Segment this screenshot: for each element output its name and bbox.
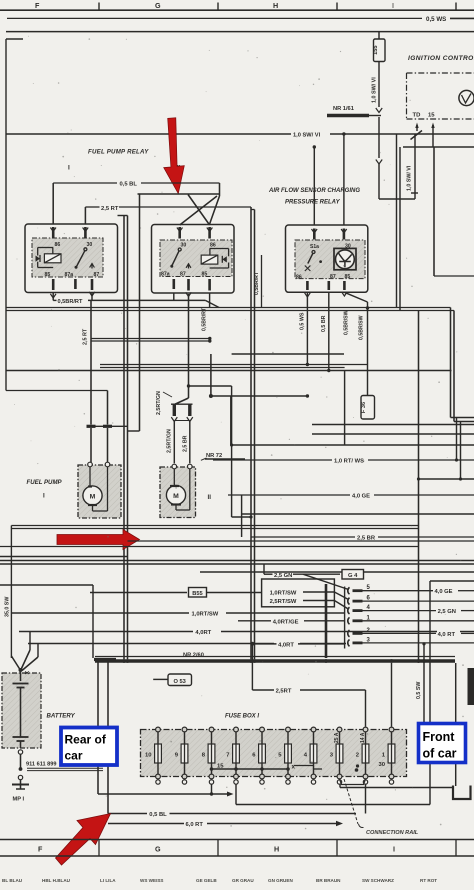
fuses 10..1 [145, 727, 395, 784]
wire 1,0SW/VI from 155 [372, 62, 383, 113]
svg-text:LI LILA: LI LILA [100, 878, 116, 883]
ground MP I [12, 785, 29, 803]
svg-text:IGNITION CONTROL: IGNITION CONTROL [408, 55, 474, 62]
svg-text:6,0 RT: 6,0 RT [186, 822, 204, 828]
legend color codes [2, 878, 437, 883]
annotation rear of car [61, 728, 117, 766]
wire bus y572 [200, 571, 474, 573]
svg-text:85: 85 [45, 272, 51, 278]
svg-text:BR BRAUN: BR BRAUN [316, 878, 341, 883]
wire B55 row [90, 592, 262, 594]
label box 1,0RT/SW 2,5RT/SW [262, 579, 348, 609]
annotation red arrow pointing right at bus [57, 530, 140, 550]
svg-text:2,5RT/GN: 2,5RT/GN [156, 391, 162, 415]
svg-text:1,0 RT/ WS: 1,0 RT/ WS [334, 459, 364, 465]
svg-text:4,0 GE: 4,0 GE [435, 589, 453, 595]
terminal TD [413, 113, 421, 132]
fuse labels 15 X 25A 30 [217, 732, 386, 770]
wire 4,0 GE row [228, 494, 474, 500]
wire 2,5RT fuse feed [252, 644, 365, 727]
svg-text:NR 72: NR 72 [206, 453, 222, 459]
svg-text:x: x [292, 764, 296, 771]
wire vertical pair x251 [251, 207, 255, 659]
wire bus pair right corner [451, 308, 474, 481]
wire 1,0RT/SW row y613 [11, 612, 345, 618]
wire bus pair y364 [100, 306, 369, 367]
svg-text:2,5RT/SW: 2,5RT/SW [270, 599, 297, 605]
wire 35,0 SW battery feed [5, 526, 12, 659]
wire y354 [232, 353, 344, 355]
wire y514 [242, 513, 474, 515]
ignition control unit box [407, 55, 474, 119]
svg-text:0,5 WS: 0,5 WS [426, 16, 446, 23]
svg-text:NR 2/60: NR 2/60 [183, 653, 204, 659]
svg-text:G: G [155, 1, 161, 10]
svg-text:10: 10 [145, 753, 152, 759]
svg-text:F: F [35, 1, 40, 10]
svg-text:F 36: F 36 [361, 402, 367, 413]
switch diagonal at TD [411, 131, 423, 140]
svg-text:GN GRUEN: GN GRUEN [268, 878, 293, 883]
svg-text:4,0 GE: 4,0 GE [352, 494, 370, 500]
svg-text:35,0 SW: 35,0 SW [5, 597, 11, 617]
svg-text:2,5RT: 2,5RT [276, 689, 292, 695]
svg-text:S1a: S1a [310, 244, 319, 250]
wire 4,0RT row y631 [19, 630, 474, 636]
left border wire [6, 39, 23, 391]
svg-text:H: H [274, 845, 279, 854]
connection rail NR 2/60 [95, 443, 455, 662]
svg-text:30: 30 [87, 242, 93, 248]
svg-text:85: 85 [345, 274, 351, 280]
label connection rail [344, 779, 419, 836]
wire vertical x418 [417, 311, 420, 663]
border top strip [0, 1, 474, 10]
wire 2,5 BR row [251, 536, 474, 542]
svg-text:1,0RT/SW: 1,0RT/SW [270, 591, 297, 597]
svg-text:SW SCHWARZ: SW SCHWARZ [362, 878, 394, 883]
wire NR72 node [209, 354, 309, 445]
wire below NR 1/61 [376, 117, 382, 199]
svg-text:Front: Front [423, 730, 456, 744]
connector NR 72 [201, 453, 245, 460]
wire vertical x139 [128, 194, 140, 431]
svg-text:GE GELB: GE GELB [196, 878, 217, 883]
label fuel pump relay [68, 149, 181, 172]
svg-text:I: I [392, 1, 394, 10]
wire fuse bottom link [210, 764, 359, 771]
wire right rows y424 y434 y479 [312, 425, 474, 481]
wire bus pair y338 [91, 337, 212, 343]
svg-text:I: I [393, 845, 395, 854]
wire y585 corner [0, 585, 93, 658]
connector block G4 pins [345, 585, 371, 648]
svg-text:87a: 87a [65, 272, 74, 278]
wire feeds to AFS relay [313, 132, 346, 225]
wire vertical x241 [241, 495, 243, 537]
battery [2, 670, 76, 748]
svg-text:0,5 BR: 0,5 BR [321, 315, 327, 332]
wire 2,5 RT to pump I [83, 300, 96, 462]
wire 2,5 RT relay30 link [85, 195, 251, 226]
wire y787 to U connector [340, 784, 453, 788]
connector O53 [153, 674, 191, 686]
svg-text:GR GRAU: GR GRAU [232, 878, 254, 883]
svg-text:M: M [90, 494, 96, 501]
wire bus pair y560 [0, 557, 474, 565]
svg-text:2,5 RT: 2,5 RT [101, 206, 119, 212]
wire 2,5 GN G4 feed [264, 564, 349, 590]
svg-text:1,0 SW/ VI: 1,0 SW/ VI [293, 133, 321, 139]
svg-text:14 A: 14 A [360, 732, 366, 743]
svg-text:F: F [38, 845, 43, 854]
svg-text:0,5 SW: 0,5 SW [416, 682, 422, 699]
svg-text:4,0 RT: 4,0 RT [438, 632, 456, 638]
svg-text:30: 30 [379, 762, 386, 768]
svg-text:2,5RT/GN: 2,5RT/GN [167, 429, 173, 453]
svg-text:of car: of car [423, 747, 457, 761]
svg-text:155: 155 [373, 46, 379, 55]
fuse box I [141, 714, 407, 777]
connector B55 [189, 588, 207, 598]
wire battery bar to fuse area [94, 660, 116, 814]
wire bus pair y525 [11, 526, 418, 529]
wire drop x396 to bus [396, 134, 398, 308]
wire right corner x430 [430, 581, 474, 805]
svg-text:NR 1/61: NR 1/61 [333, 106, 354, 112]
svg-text:PRESSURE RELAY: PRESSURE RELAY [285, 200, 341, 206]
svg-text:2,5 GN: 2,5 GN [274, 573, 292, 579]
svg-text:30: 30 [181, 242, 187, 248]
svg-text:1,0RT/SW: 1,0RT/SW [192, 612, 219, 618]
svg-text:BL BLAU: BL BLAU [2, 878, 23, 883]
svg-text:86: 86 [210, 242, 216, 248]
svg-text:911 611 899: 911 611 899 [26, 762, 57, 768]
svg-text:MP I: MP I [13, 797, 25, 803]
wire bus y546 [0, 546, 418, 548]
annotation red arrow pointing down at relay II [164, 118, 185, 194]
svg-text:87a: 87a [161, 272, 170, 278]
wire fuse1 feed from rail [391, 663, 393, 727]
wire 4,0RT to pin3 [255, 643, 345, 649]
wire vertical from 15 to right edge [434, 147, 474, 276]
wire battery to upper right [19, 632, 41, 658]
svg-text:I: I [68, 165, 70, 172]
svg-text:1,0 SW/ VI: 1,0 SW/ VI [407, 165, 413, 191]
wire bus pair y307 [6, 307, 454, 310]
svg-text:M: M [173, 493, 179, 500]
wire ground to pump I right [6, 391, 128, 463]
wire y804 from fuse 7 [236, 784, 430, 805]
svg-text:86: 86 [296, 274, 302, 280]
svg-text:RT ROT: RT ROT [420, 878, 437, 883]
wire 4,0RT row y644 with connector [28, 642, 346, 645]
wire G4 pin rows to right edge [363, 591, 474, 643]
wire AFS 87 down 0,5BR [321, 292, 329, 370]
connector 155 [373, 32, 385, 62]
svg-text:25 A: 25 A [334, 732, 340, 743]
svg-text:86: 86 [55, 242, 61, 248]
svg-text:2,5 BR: 2,5 BR [183, 435, 189, 452]
svg-text:2,5 RT: 2,5 RT [83, 328, 89, 345]
wire 0,5 WS top bus [7, 16, 474, 23]
wire relay II 87 branch to x231 [189, 385, 232, 387]
wire bus y370 full [6, 369, 452, 372]
fuse F 36 [361, 396, 375, 420]
connector U right [453, 786, 471, 800]
svg-text:WS WEISS: WS WEISS [140, 878, 163, 883]
fuel pump I [78, 462, 121, 518]
svg-text:87: 87 [330, 274, 336, 280]
svg-text:85: 85 [202, 272, 208, 278]
svg-text:0,5 BL: 0,5 BL [149, 812, 167, 818]
wire 1,0 RT/WS [213, 459, 474, 465]
wire 2,5RT/GN to pump II [156, 294, 193, 463]
svg-text:0,5BR/RT: 0,5BR/RT [58, 299, 83, 305]
svg-text:car: car [65, 749, 83, 763]
svg-text:4,0RT: 4,0RT [278, 643, 294, 649]
svg-text:FUEL PUMP RELAY: FUEL PUMP RELAY [88, 149, 149, 156]
svg-text:0,5 WS: 0,5 WS [300, 312, 306, 330]
wire AFS 86 down 0,5WS [300, 292, 308, 364]
wire corner x344 up [232, 371, 474, 446]
wire vertical x231 [232, 386, 251, 517]
wire fuse3-2 U link [340, 779, 366, 785]
wire 6,0 RT bottom [108, 821, 343, 828]
svg-text:TD: TD [413, 113, 421, 119]
svg-text:0,5 BL: 0,5 BL [120, 182, 138, 188]
svg-text:87: 87 [94, 272, 100, 278]
wire bus terminal-15 y147 [403, 146, 474, 148]
wire vertical pair mid-left [118, 216, 128, 660]
distributor symbol inside ignition unit [459, 90, 474, 105]
wire 0,5 BL relay86 link [53, 182, 219, 224]
svg-text:I: I [43, 493, 45, 500]
wire drop x400 to bus [399, 147, 401, 311]
terminal 15 [428, 113, 435, 148]
svg-text:15: 15 [428, 113, 435, 119]
dark edge bar bottom right [468, 668, 474, 705]
wire G4 thick vertical [325, 584, 328, 658]
annotation front of car [419, 724, 466, 763]
svg-text:4,0RT/GE: 4,0RT/GE [273, 619, 299, 625]
wire 0,5SW [416, 642, 426, 726]
svg-text:FUSE BOX I: FUSE BOX I [225, 714, 259, 720]
wire 0,5BR/RT relay ground link [53, 293, 219, 332]
svg-text:2,5 GN: 2,5 GN [438, 609, 456, 615]
wire cross feed to relay II [138, 194, 220, 225]
wire 4,0RT/GE [238, 619, 345, 625]
svg-text:G: G [155, 845, 161, 854]
svg-text:II: II [208, 494, 212, 501]
svg-text:B55: B55 [192, 591, 202, 597]
svg-text:Rear of: Rear of [65, 733, 107, 747]
svg-text:H: H [273, 1, 278, 10]
wire AFS 85 to F36 0,5BR/SW [344, 292, 368, 395]
wire battery positive node [11, 650, 38, 674]
relay fuel pump relay II [152, 225, 235, 297]
wire bus 10 SW/VI [6, 133, 474, 139]
svg-text:FUEL PUMP: FUEL PUMP [27, 479, 63, 486]
border bottom strip [0, 840, 474, 857]
connector NR 1/61 [327, 106, 381, 116]
label fuel pump [27, 479, 212, 501]
connector G 4 [342, 570, 364, 580]
relay air flow sensor charging pressure relay [286, 225, 368, 297]
svg-text:HBL H.BLAU: HBL H.BLAU [42, 878, 71, 883]
label air flow sensor charging pressure relay [268, 188, 360, 206]
svg-text:0,5BR/SW: 0,5BR/SW [344, 310, 350, 335]
svg-text:4,0RT: 4,0RT [195, 630, 211, 636]
wire rail to right down [455, 663, 457, 786]
annotation red arrow diagonal bottom [56, 814, 111, 866]
wire bus y541 [128, 540, 474, 542]
wire 0,5BR/RT label right of relay II [254, 255, 262, 308]
border second line [6, 31, 474, 33]
relay fuel pump relay I [25, 224, 118, 298]
svg-text:G 4: G 4 [348, 573, 358, 579]
label 911 611 899 [26, 762, 103, 771]
svg-text:O 53: O 53 [174, 679, 186, 685]
wire battery negative to ground [18, 750, 22, 784]
svg-text:0,5BR/SW: 0,5BR/SW [359, 315, 365, 340]
wire 0,5 BL bottom [108, 784, 366, 818]
fuel pump II [160, 464, 196, 517]
svg-text:1,0 SW/ VI: 1,0 SW/ VI [372, 77, 378, 103]
svg-text:87: 87 [180, 272, 186, 278]
svg-text:CONNECTION RAIL: CONNECTION RAIL [366, 830, 419, 836]
wire 1,0SW/VI drop from TD [379, 134, 418, 199]
wire y794 to fuse 8 [98, 784, 234, 797]
